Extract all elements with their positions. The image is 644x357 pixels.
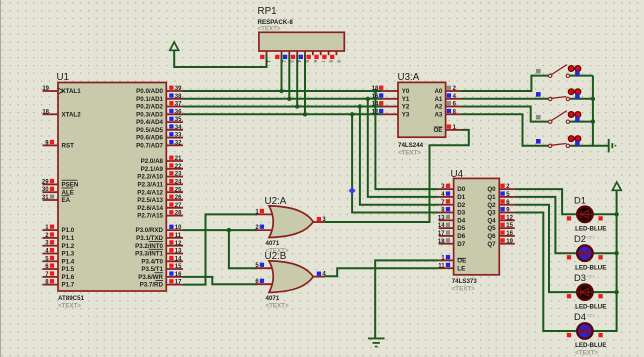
svg-text:P2.6/A14: P2.6/A14 (137, 205, 163, 212)
svg-text:<TEXT>: <TEXT> (258, 26, 281, 33)
svg-text:7: 7 (321, 60, 326, 63)
junction P0.0/RP1-2 (279, 89, 283, 93)
node marker (blue diamond) on P0.3 drop (349, 187, 356, 194)
svg-text:P0.1/AD1: P0.1/AD1 (136, 96, 163, 103)
svg-text:LED-BLUE: LED-BLUE (575, 226, 606, 233)
U1 pin 11 P3.1 (166, 237, 183, 239)
svg-text:P0.6/AD6: P0.6/AD6 (136, 135, 163, 142)
U2:A pin 1 (255, 213, 273, 215)
U1 pin 25 P2.4 (166, 191, 183, 193)
junction P0.2/RP1-4 (295, 104, 299, 108)
svg-text:Q6: Q6 (487, 233, 496, 240)
svg-text:12: 12 (175, 241, 182, 247)
U1 pin 39 P0.0 (166, 90, 183, 92)
svg-text:Y3: Y3 (402, 111, 410, 118)
wire D1 anode to rail (593, 213, 616, 215)
U1 pin 36 P0.3 (166, 113, 183, 115)
switch SW4 (closed) (536, 139, 541, 144)
svg-text:28: 28 (175, 211, 182, 217)
U3 pin 16 Y1 (383, 98, 398, 100)
svg-text:P2.1/A9: P2.1/A9 (141, 166, 164, 173)
svg-text:18: 18 (42, 109, 49, 115)
U4 pin 9 Q3 (499, 212, 515, 214)
LED anode rail (593, 214, 616, 331)
svg-text:4: 4 (297, 60, 302, 63)
svg-text:P1.7: P1.7 (62, 282, 75, 289)
U1 pin 15 P3.5 (166, 268, 183, 270)
U4 pin 13 D4 (439, 219, 454, 221)
latch U4 74LS373 body (454, 178, 500, 274)
LED D4 anode pin square (598, 333, 602, 337)
svg-text:14: 14 (175, 256, 182, 262)
RP1 pin 4 (296, 51, 298, 55)
svg-text:27: 27 (175, 203, 182, 209)
svg-text:35: 35 (175, 117, 182, 123)
U1 XTAL1 clock marker (59, 88, 64, 94)
junction P0.3/D3 tap (350, 112, 354, 116)
svg-text:P1.4: P1.4 (62, 258, 75, 265)
svg-text:3: 3 (289, 60, 294, 63)
svg-text:5: 5 (305, 60, 310, 63)
U4 pin 8 D3 (439, 212, 454, 214)
svg-text:P3.0/RXD: P3.0/RXD (135, 227, 163, 234)
wire D3 anode to rail (593, 291, 616, 293)
svg-text:19: 19 (42, 86, 49, 92)
junction P0.2/D2 tap (358, 104, 362, 108)
wire VCC to RP1 pin1 (174, 50, 266, 67)
svg-text:LED-BLUE: LED-BLUE (575, 303, 606, 310)
U1 pin 23 P2.2 (166, 176, 183, 178)
or-gate U2:B 4071 body (269, 261, 313, 293)
svg-text:4071: 4071 (266, 240, 280, 247)
svg-text:D2: D2 (457, 202, 465, 209)
microcontroller U1 AT89C51 body (58, 83, 166, 292)
U1 pin 37 P0.2 (166, 106, 183, 108)
svg-text:D2: D2 (574, 233, 586, 244)
junction rail/D2 (614, 251, 618, 255)
svg-text:RST: RST (62, 143, 75, 150)
U1 pin 7 P1.6 (43, 276, 59, 278)
U1 pin 22 P2.1 (166, 168, 183, 170)
svg-text:Y2: Y2 (402, 104, 410, 111)
LED D1 LED-BLUE (577, 207, 592, 222)
RP1 pin 9 (335, 51, 337, 55)
svg-text:P1.5: P1.5 (62, 266, 75, 273)
U4 pin 16 Q6 (499, 235, 515, 237)
svg-text:P0.2/AD2: P0.2/AD2 (136, 104, 163, 111)
RP1 pin 7 (320, 51, 322, 55)
svg-text:21: 21 (175, 156, 182, 162)
U1 pin 38 P0.1 (166, 98, 183, 100)
wire net P3.7: U1 pin17 to U2:A pin1 (183, 214, 257, 284)
svg-text:P2.0/A8: P2.0/A8 (141, 158, 164, 165)
U3 pin 6 A2 (446, 106, 461, 108)
svg-text:P2.7/A15: P2.7/A15 (137, 213, 163, 220)
U1 pin 16 P3.6 (166, 276, 183, 278)
svg-text:U2:A: U2:A (265, 196, 287, 207)
U4 pin 5 Q1 (499, 196, 515, 198)
svg-text:D1: D1 (574, 194, 586, 205)
svg-text:33: 33 (175, 133, 182, 139)
wire net Q1: U4 pin5 to LED D2 (515, 197, 577, 253)
svg-text:P3.1/TXD: P3.1/TXD (136, 235, 163, 242)
RP1 pin 6 (312, 51, 314, 55)
svg-text:<TEXT>: <TEXT> (398, 150, 421, 157)
U4 pin 4 D1 (439, 196, 454, 198)
svg-text:15: 15 (175, 264, 182, 270)
switch SW3 (open) (536, 115, 541, 120)
svg-text:23: 23 (175, 172, 182, 178)
junction rail/D3 (614, 290, 618, 294)
svg-text:P3.7/RD: P3.7/RD (140, 282, 164, 289)
svg-text:31: 31 (42, 195, 49, 201)
junction P0.0/D0 tap (373, 89, 377, 93)
U1 pin 9 RST (43, 144, 59, 146)
svg-text:32: 32 (175, 141, 182, 147)
svg-text:A2: A2 (434, 104, 442, 111)
svg-text:18: 18 (372, 86, 379, 92)
wire net U2:A output pin3 to U3 OE pin1 (325, 130, 469, 222)
U3 pin 1 OE (446, 129, 461, 131)
LED D1 cathode pin square (567, 216, 571, 220)
U4 pin 12 Q4 (499, 219, 515, 221)
svg-text:XTAL1: XTAL1 (62, 88, 82, 95)
U1 pin 28 P2.7 (166, 215, 183, 217)
wire net P0.0: U1 pin39 to U3 Y0, RP1 pin2 pull-up, tap to U4 D0 (183, 90, 383, 92)
U3 pin 2 A0 (446, 90, 461, 92)
U1 pin 1 P1.0 (43, 229, 59, 231)
svg-text:P1.6: P1.6 (62, 274, 75, 281)
LED D1 anode pin square (598, 216, 602, 220)
svg-text:39: 39 (175, 86, 182, 92)
svg-text:11: 11 (175, 233, 182, 239)
U3 pin 14 Y2 (383, 106, 398, 108)
svg-text:<TEXT>: <TEXT> (575, 350, 598, 357)
U4 pin 7 D2 (439, 204, 454, 206)
svg-text:12: 12 (372, 109, 379, 115)
svg-text:P0.5/AD5: P0.5/AD5 (136, 127, 163, 134)
wire VCC down to LED anode rail (616, 190, 618, 214)
U2:A pin 2 (255, 229, 273, 231)
switch SW1 (open) (536, 69, 541, 74)
U1 pin 13 P3.3 (166, 253, 183, 255)
RP1 pin 2 (281, 51, 283, 55)
U1 pin 29 PSEN (43, 183, 59, 185)
wire net P3.6: U1 pin16 to U2:B pin6 (183, 277, 257, 284)
LED D2 anode pin square (598, 255, 602, 259)
U4 pin 17 D6 (439, 235, 454, 237)
svg-text:1: 1 (267, 60, 272, 63)
svg-text:4071: 4071 (266, 295, 280, 302)
wire net P0.2: U1 pin37 to U3 Y2, RP1 pin4, tap to U4 D2 (183, 106, 383, 108)
wire net A2: U3 A2 pin6 to switch SW3 (461, 107, 549, 122)
svg-text:A1: A1 (434, 96, 442, 103)
U1 pin 27 P2.6 (166, 207, 183, 209)
svg-text:P1.3: P1.3 (62, 251, 75, 258)
U2:B pin 5 (255, 267, 273, 269)
svg-text:D7: D7 (457, 241, 465, 248)
svg-text:P1.1: P1.1 (62, 235, 75, 242)
junction trunk/SW3 (591, 119, 595, 123)
U4 pin 3 D0 (439, 188, 454, 190)
svg-text:2: 2 (282, 60, 287, 63)
U4 pin 18 D7 (439, 243, 454, 245)
svg-text:P1.2: P1.2 (62, 243, 75, 250)
svg-text:RP1: RP1 (258, 6, 277, 17)
svg-text:15: 15 (506, 223, 513, 229)
U1 pin 31 EA (43, 199, 59, 201)
svg-text:ALE: ALE (62, 189, 74, 196)
wire switch common trunk to ground (right) (570, 75, 593, 77)
svg-text:P0.0/AD0: P0.0/AD0 (136, 88, 163, 95)
LED D3 anode pin square (598, 294, 602, 298)
U1 pin 33 P0.6 (166, 137, 183, 139)
svg-text:EA: EA (62, 197, 71, 204)
svg-text:LED-BLUE: LED-BLUE (575, 342, 606, 349)
switch SW2 (closed) (536, 92, 541, 97)
U1 pin 24 P2.3 (166, 183, 183, 185)
U1 pin 12 P3.2 (166, 245, 183, 247)
svg-text:D1: D1 (457, 194, 465, 201)
svg-text:11: 11 (438, 263, 445, 269)
RP1 pin 3 (288, 51, 290, 55)
svg-text:P3.6/WR: P3.6/WR (138, 274, 163, 281)
junction rail/D1 (614, 212, 618, 216)
svg-text:Q7: Q7 (487, 241, 496, 248)
wire net A0: U3 A0 pin2 to switch SW1 (461, 76, 549, 91)
svg-text:D4: D4 (457, 217, 465, 224)
svg-text:Y1: Y1 (402, 96, 410, 103)
svg-text:34: 34 (175, 125, 182, 131)
U2:A pin 3 (output) (313, 221, 324, 223)
svg-text:U2:B: U2:B (265, 251, 287, 262)
svg-text:P2.2/A10: P2.2/A10 (137, 174, 163, 181)
svg-text:P3.5/T1: P3.5/T1 (141, 266, 163, 273)
svg-text:A0: A0 (434, 88, 442, 95)
svg-text:37: 37 (175, 102, 182, 108)
junction trunk/SW2 (591, 97, 595, 101)
svg-text:16: 16 (175, 272, 182, 278)
power symbol VCC (right, LED supply) (612, 182, 621, 190)
junction P0.1/D1 tap (366, 97, 370, 101)
svg-text:<TEXT>: <TEXT> (58, 303, 81, 310)
wire net Q3: U4 pin9 to LED D4 (515, 213, 577, 332)
wire net P0.3: U1 pin36 to U3 Y3, RP1 pin5, tap to U4 D3 (183, 113, 383, 115)
svg-text:36: 36 (175, 109, 182, 115)
svg-text:<TEXT>: <TEXT> (452, 286, 475, 293)
junction P0.3/RP1-5 (303, 112, 307, 116)
svg-text:<T>: <T> (587, 235, 596, 241)
svg-text:13: 13 (175, 249, 182, 255)
svg-text:9: 9 (336, 60, 341, 63)
svg-text:18: 18 (438, 239, 445, 245)
svg-text:D3: D3 (457, 210, 465, 217)
svg-text:22: 22 (175, 164, 182, 170)
U4 pin 19 Q7 (499, 243, 515, 245)
U1 pin 32 P0.7 (166, 144, 183, 146)
svg-text:17: 17 (438, 231, 445, 237)
svg-text:LED-BLUE: LED-BLUE (575, 264, 606, 271)
U1 pin 14 P3.4 (166, 260, 183, 262)
U2:B pin 4 (output) (313, 276, 324, 278)
junction P0.1/RP1-3 (287, 97, 291, 101)
svg-text:74LS244: 74LS244 (398, 142, 424, 149)
U3 pin 12 Y3 (383, 113, 398, 115)
svg-text:26: 26 (175, 195, 182, 201)
wire net P0.1: U1 pin38 to U3 Y1, RP1 pin3, tap to U4 D1 (183, 98, 383, 100)
svg-text:P0.4/AD4: P0.4/AD4 (136, 119, 163, 126)
svg-text:8: 8 (329, 60, 334, 63)
power symbol VCC (left, feeds RP1 pin 1) (170, 42, 179, 50)
LED D3 cathode pin square (567, 294, 571, 298)
svg-text:25: 25 (175, 187, 182, 193)
svg-text:38: 38 (175, 94, 182, 100)
svg-text:D3: D3 (574, 272, 586, 283)
U1 pin 5 P1.4 (43, 260, 59, 262)
U1 pin 2 P1.1 (43, 237, 59, 239)
svg-text:<T>: <T> (587, 313, 596, 319)
svg-text:14: 14 (372, 102, 379, 108)
svg-text:<TEXT>: <TEXT> (266, 303, 289, 310)
svg-text:Q4: Q4 (487, 217, 496, 224)
svg-text:P2.5/A13: P2.5/A13 (137, 197, 163, 204)
U1 pin 4 P1.3 (43, 253, 59, 255)
wire net A1: U3 A1 pin4 to switch SW2 (461, 98, 549, 100)
wire net Q2: U4 pin6 to LED D3 (515, 205, 577, 292)
svg-text:P2.3/A11: P2.3/A11 (138, 182, 164, 189)
svg-text:17: 17 (175, 280, 182, 286)
LED D2 LED-BLUE (577, 246, 592, 261)
svg-text:Q3: Q3 (487, 210, 496, 217)
ground (right, rotated) (608, 139, 610, 153)
U3 pin 18 Y0 (383, 90, 398, 92)
svg-text:P0.7/AD7: P0.7/AD7 (136, 143, 163, 150)
U1 pin 21 P2.0 (166, 160, 183, 162)
wire net U2:B output pin4 to U4 LE pin11 (325, 268, 439, 276)
svg-text:U3:A: U3:A (398, 72, 420, 83)
U4 pin 1 OE (439, 259, 454, 261)
svg-text:<T>: <T> (587, 274, 596, 280)
svg-text:6: 6 (313, 60, 318, 63)
U1 pin 17 P3.7 (166, 284, 183, 286)
U4 pin 2 Q0 (499, 188, 515, 190)
LED D4 cathode pin square (567, 333, 571, 337)
wire net P3.0: U1 pin10 to U2:A pin2 and U2:B pin5 (183, 229, 257, 231)
LED D3 LED-BLUE (577, 284, 592, 299)
svg-text:D4: D4 (574, 311, 586, 322)
resistor pack RP1 RESPACK-8 body (259, 32, 344, 51)
svg-text:XTAL2: XTAL2 (62, 111, 82, 118)
U1 pin 8 P1.7 (43, 284, 59, 286)
svg-text:U4: U4 (451, 169, 464, 180)
U4 pin 14 D5 (439, 227, 454, 229)
U1 pin 34 P0.5 (166, 129, 183, 131)
svg-text:24: 24 (175, 180, 182, 186)
LED D4 LED-BLUE (577, 323, 592, 338)
U4 pin 15 Q5 (499, 227, 515, 229)
U1 pin 19 XTAL1 (43, 90, 59, 92)
svg-text:Q1: Q1 (487, 194, 496, 201)
ground (bottom centre) (368, 337, 385, 339)
or-gate U2:A 4071 body (269, 206, 313, 238)
RP1 pin 5 (304, 51, 306, 55)
U4 pin 6 Q2 (499, 204, 515, 206)
svg-text:16: 16 (506, 231, 513, 237)
svg-text:Q0: Q0 (487, 186, 496, 193)
wire net A3: U3 A3 pin8 to switch SW4 (461, 114, 549, 145)
RP1 pin 8 (328, 51, 330, 55)
LED D2 cathode pin square (567, 255, 571, 259)
svg-text:Q5: Q5 (487, 225, 496, 232)
svg-text:29: 29 (42, 179, 49, 185)
svg-text:D6: D6 (457, 233, 465, 240)
svg-text:D0: D0 (457, 186, 465, 193)
svg-text:14: 14 (438, 223, 445, 229)
junction P3.0 split (227, 228, 231, 232)
U1 pin 30 ALE (43, 191, 59, 193)
svg-text:A3: A3 (434, 111, 442, 118)
svg-text:P3.4/T0: P3.4/T0 (141, 258, 163, 265)
svg-text:16: 16 (372, 94, 379, 100)
U1 pin 10 P3.0 (166, 229, 183, 231)
U4 pin 11 LE (439, 267, 454, 269)
wire net U4 OE pin1 to ground (375, 260, 438, 338)
svg-text:P2.4/A12: P2.4/A12 (137, 189, 163, 196)
svg-text:U1: U1 (57, 72, 70, 83)
svg-text:AT89C51: AT89C51 (58, 295, 85, 302)
svg-text:10: 10 (175, 225, 182, 231)
U1 pin 6 P1.5 (43, 268, 59, 270)
wire D2 anode to rail (593, 252, 616, 254)
svg-text:PSEN: PSEN (62, 182, 79, 189)
U1 pin 3 P1.2 (43, 245, 59, 247)
svg-text:19: 19 (506, 239, 513, 245)
svg-text:D5: D5 (457, 225, 465, 232)
U3 pin 4 A1 (446, 98, 461, 100)
svg-text:Q2: Q2 (487, 202, 496, 209)
svg-text:P3.3/INT1: P3.3/INT1 (135, 251, 163, 258)
RP1 pin 1 (266, 51, 268, 55)
svg-text:74LS373: 74LS373 (452, 278, 478, 285)
U1 pin 35 P0.4 (166, 121, 183, 123)
svg-text:P1.0: P1.0 (62, 227, 75, 234)
svg-text:OE: OE (433, 127, 442, 134)
svg-text:LE: LE (457, 265, 465, 272)
svg-text:P3.2/INT0: P3.2/INT0 (135, 243, 163, 250)
svg-text:30: 30 (42, 187, 49, 193)
U1 pin 18 XTAL2 (43, 113, 59, 115)
U2:B pin 6 (255, 283, 273, 285)
svg-text:P0.3/AD3: P0.3/AD3 (136, 111, 163, 118)
wire net Q0: U4 pin2 to LED D1 (515, 189, 577, 214)
svg-text:13: 13 (438, 215, 445, 221)
U3 pin 8 A3 (446, 113, 461, 115)
svg-text:Y0: Y0 (402, 88, 410, 95)
U1 pin 26 P2.5 (166, 199, 183, 201)
buffer U3:A 74LS244 body (398, 82, 446, 137)
svg-text:12: 12 (506, 215, 513, 221)
